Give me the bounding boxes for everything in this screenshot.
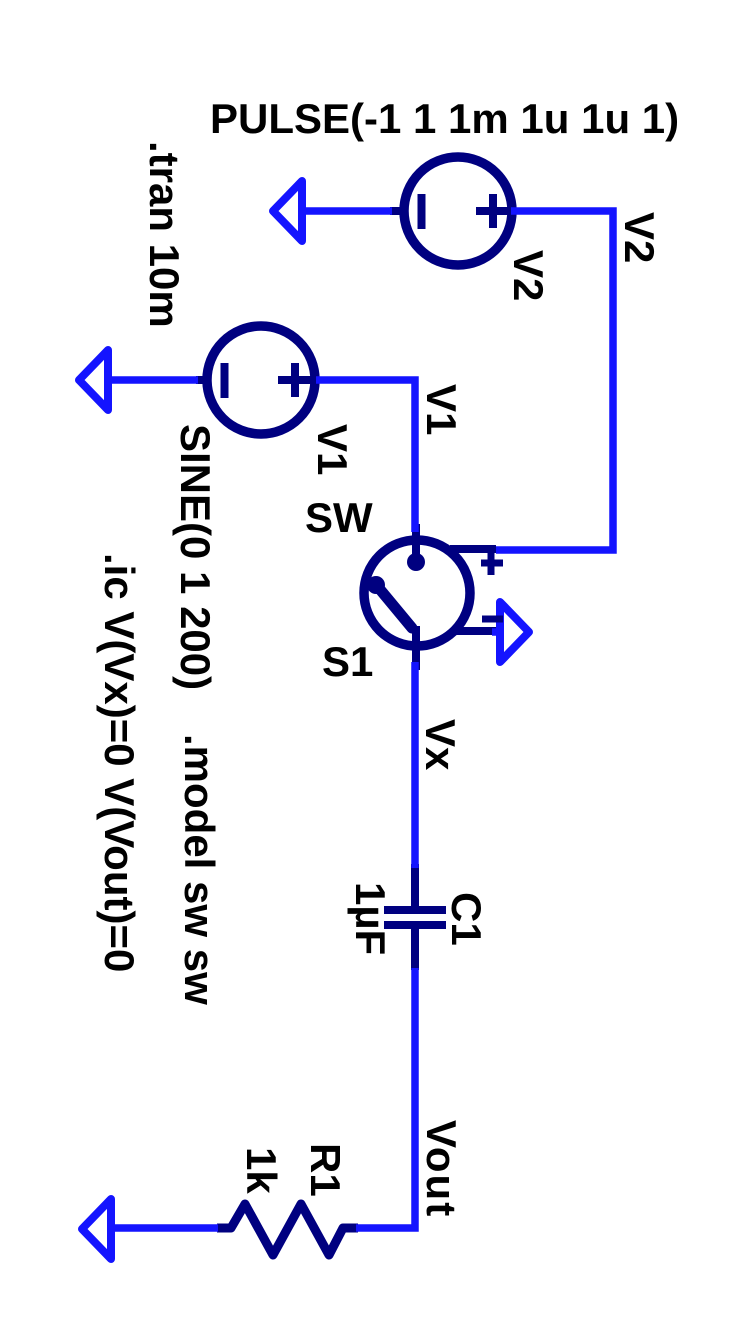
svg-text:R1: R1 — [302, 1143, 349, 1197]
svg-text:V2: V2 — [616, 212, 663, 263]
svg-text:V1: V1 — [309, 424, 356, 475]
svg-text:1µF: 1µF — [347, 882, 394, 955]
svg-text:PULSE(-1 1 1m 1u 1u 1): PULSE(-1 1 1m 1u 1u 1) — [210, 95, 679, 142]
svg-text:.tran 10m: .tran 10m — [141, 141, 188, 328]
svg-text:V1: V1 — [418, 384, 465, 435]
svg-text:.model sw sw: .model sw sw — [176, 734, 223, 1005]
svg-text:V2: V2 — [505, 250, 552, 301]
svg-text:.ic V(Vx)=0 V(Vout)=0: .ic V(Vx)=0 V(Vout)=0 — [96, 553, 143, 972]
svg-text:Vout: Vout — [418, 1120, 465, 1218]
svg-text:S1: S1 — [322, 638, 373, 685]
svg-text:SW: SW — [305, 494, 373, 541]
svg-text:Vx: Vx — [417, 719, 464, 771]
svg-text:C1: C1 — [443, 892, 490, 946]
svg-text:1k: 1k — [238, 1147, 285, 1194]
svg-text:SINE(0 1 200): SINE(0 1 200) — [172, 424, 219, 690]
